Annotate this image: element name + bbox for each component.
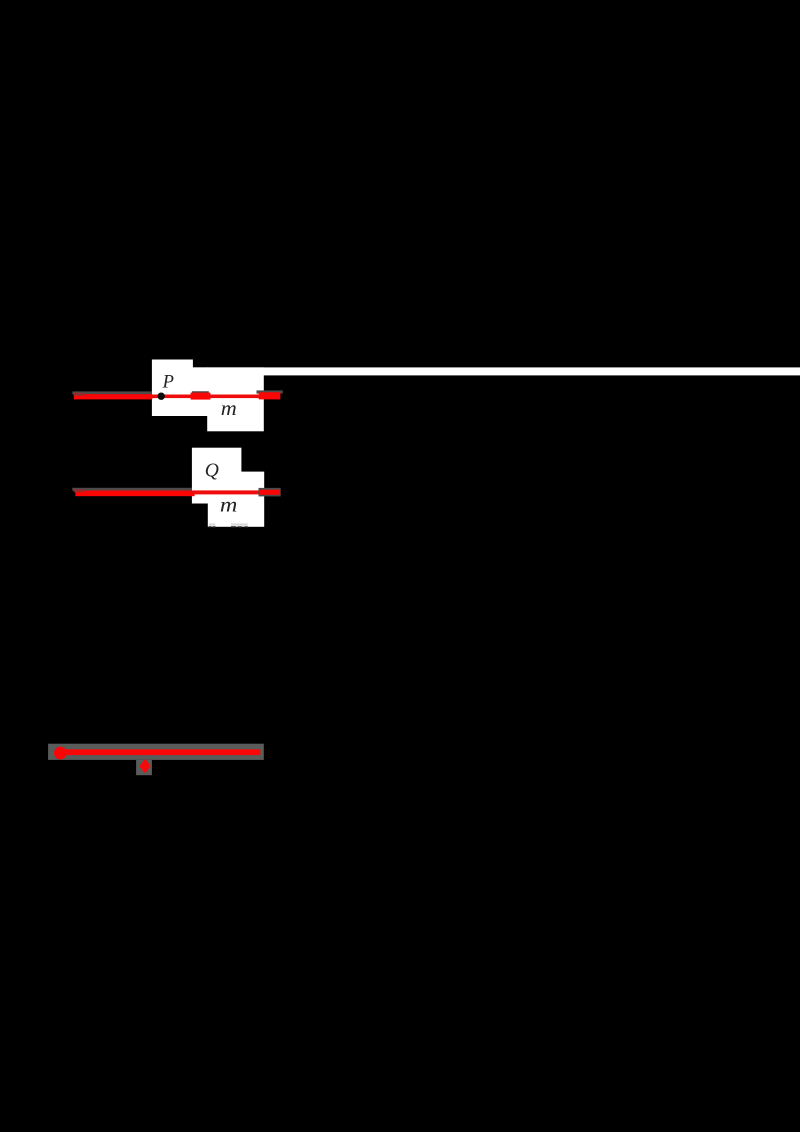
dark red tip at left end (figure 1) — [74, 393, 84, 396]
red segment line (figure 3) — [58, 749, 260, 755]
faint grey smudge left (figure 2 bottom) — [209, 523, 216, 525]
white patch C2 (figure 2, right column) — [240, 472, 264, 527]
middle thick red segment of line m (figure 1) — [191, 393, 211, 400]
left thick red segment of line m (figure 1) — [74, 394, 153, 399]
grey shadow above middle thick segment (figure 1) — [192, 391, 209, 394]
cut-off text fragment 3 — [231, 526, 236, 528]
white patch A (figure 1, around point P) — [152, 360, 193, 417]
dark red tip at left end (figure 2) — [74, 489, 83, 492]
grey shadow above left thick segment (figure 2) — [72, 488, 192, 491]
grey halo of right thick segment (figure 2) — [259, 488, 281, 497]
point P dot — [158, 393, 165, 400]
wire: line m (figure 1) thin red line — [151, 395, 260, 399]
svg-text:Q: Q — [205, 460, 219, 481]
cut-off text fragment 5 — [245, 526, 248, 528]
red diamond mark in label box (figure 3) — [141, 761, 149, 772]
grey shadow above left thick segment (figure 1) — [72, 391, 151, 394]
cut-off text fragment 2 — [213, 526, 216, 528]
grey bar (figure 3 segment background) — [48, 744, 264, 760]
svg-text:m: m — [221, 396, 237, 420]
svg-text:P: P — [162, 373, 174, 393]
white strip S (thin band to right edge) — [192, 367, 800, 375]
grey label box (figure 3) — [136, 760, 152, 775]
white patch B2 (figure 1, around label m) — [207, 367, 264, 431]
cut-off text fragment 1 — [209, 526, 212, 528]
white patch C1 (figure 2, around Q) — [192, 448, 242, 504]
grey shadow of right thick segment (figure 1) — [257, 390, 283, 393]
faint grey smudge right (figure 2 bottom) — [231, 523, 248, 525]
svg-text:m: m — [220, 493, 238, 517]
wire: thin red line m (figure 2) — [193, 490, 260, 494]
right thick red segment of line m (figure 2) — [259, 490, 280, 495]
white patch C3 (figure 2, below line, around m) — [208, 502, 242, 526]
red endpoint dot (figure 3) — [54, 747, 67, 760]
white patch B1 (figure 1, right of P) — [192, 367, 209, 416]
cut-off text fragment 4 — [238, 526, 243, 528]
right thick red segment of line m (figure 1) — [259, 392, 281, 399]
left thick red segment of line m (figure 2) — [75, 491, 194, 497]
